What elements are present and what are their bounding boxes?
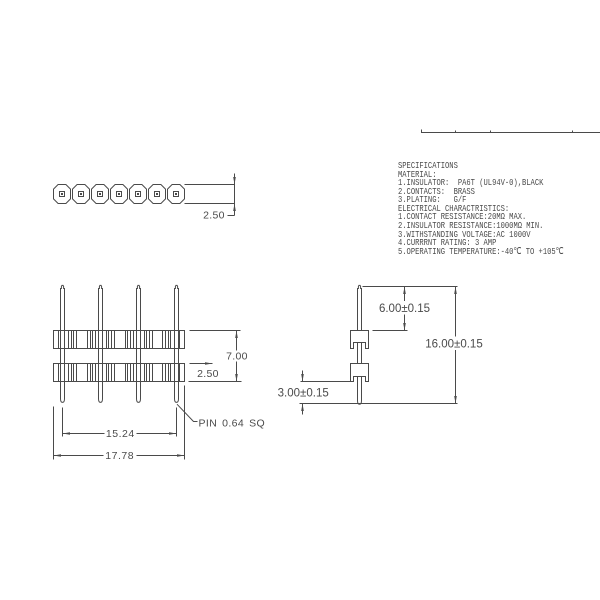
front view: insulator row 1 (upper) outline	[54, 331, 185, 349]
top view pin 6 square cross-section	[155, 192, 160, 197]
top view insulator block 1	[54, 185, 71, 204]
6.00 dimension line upper segment	[404, 287, 406, 302]
7.00 top arrowhead	[235, 331, 238, 339]
top view pin 3 square cross-section	[98, 192, 103, 197]
top view: leader tail to text	[228, 215, 235, 217]
front view: top pin with chamfered tip	[137, 285, 141, 330]
front view: pin segment between rows (right edge)	[102, 349, 104, 364]
front view: top pin with chamfered tip	[61, 285, 65, 330]
3.00 upper outside-arrow stem	[302, 371, 304, 382]
specifications text block	[398, 162, 564, 256]
top view: extension of bottom edge	[185, 203, 235, 205]
front view: row 2 (lower) chamfer and block-joint lines	[58, 364, 60, 382]
top view insulator block 5	[130, 185, 147, 204]
front view: insulator row 2 (lower) outline	[54, 364, 185, 382]
3.00 lower outside-arrow stem	[302, 404, 304, 415]
side view: pin middle segment right edge	[361, 343, 363, 364]
front view: pin segment between rows (left edge)	[98, 349, 100, 364]
front view: bottom pin with rounded tip	[99, 382, 103, 403]
front view: top pin with chamfered tip	[175, 285, 179, 330]
top view pin 7 square cross-section	[174, 192, 179, 197]
svg-text:6.00±0.15: 6.00±0.15	[379, 303, 430, 315]
16.00 dimension line lower segment	[455, 350, 457, 404]
top view insulator block 4	[111, 185, 128, 204]
17.78 dimension line left segment	[54, 455, 104, 457]
ext line from row1 top edge (7.00)	[190, 330, 241, 332]
side view: insulator row 1 profile with bottom recess	[351, 331, 369, 349]
ext line from pin top (6.00/16.00)	[363, 286, 458, 288]
side view: insulator row 2 profile with bottom recess	[351, 364, 369, 382]
16.00 dimension line upper segment	[455, 287, 457, 337]
15.24 dimension line left segment	[63, 433, 105, 435]
svg-text:2.50: 2.50	[203, 210, 225, 222]
6.00 top arrowhead	[403, 287, 406, 295]
15.24 left arrowhead	[63, 432, 71, 435]
17.78 right arrowhead	[177, 454, 185, 457]
17.78 dimension line right segment	[137, 455, 185, 457]
ext line from row1 top (6.00)	[373, 330, 408, 332]
6.00 dimension line lower segment	[404, 315, 406, 331]
svg-text:PIN 0.64 SQ: PIN 0.64 SQ	[199, 417, 266, 429]
front view: pin segment between rows (left edge)	[174, 349, 176, 364]
ext line from row2 bottom edge (shared)	[189, 381, 242, 383]
7.00 dimension line lower segment	[236, 362, 238, 382]
top view pin 1 square cross-section	[60, 192, 65, 197]
arrowhead on 2.50 ext line	[205, 362, 213, 365]
top view insulator block 2	[73, 185, 90, 204]
15.24 right arrowhead	[169, 432, 177, 435]
front view: pin segment between rows (left edge)	[60, 349, 62, 364]
16.00 top arrowhead	[454, 287, 457, 295]
7.00 bottom arrowhead	[235, 374, 238, 382]
top view: arrowhead at bottom edge	[233, 204, 236, 212]
top view pin 2 square cross-section	[79, 192, 84, 197]
svg-text:2.50: 2.50	[197, 368, 219, 380]
front view: top pin with chamfered tip	[99, 285, 103, 330]
top view insulator block 6	[149, 185, 166, 204]
front view: pin segment between rows (right edge)	[64, 349, 66, 364]
svg-text:7.00: 7.00	[226, 350, 248, 362]
top view: extension of top edge	[185, 184, 235, 186]
ext line at pin bottom (3.00/16.00)	[300, 403, 458, 405]
top view: arrowhead at top edge	[233, 177, 236, 185]
15.24 ext line from pin 1	[62, 408, 64, 437]
front view: row 1 (upper) chamfer and block-joint lines	[58, 331, 60, 349]
ext line from row2 top edge (2.50)	[190, 363, 213, 365]
svg-text:17.78: 17.78	[105, 450, 134, 462]
svg-text:15.24: 15.24	[106, 428, 135, 440]
top view pin 5 square cross-section	[136, 192, 141, 197]
side view: pin upper segment with chamfered tip	[358, 285, 362, 330]
7.00 dimension line upper segment	[236, 331, 238, 351]
top view insulator block 7	[168, 185, 185, 204]
top view insulator block 3	[92, 185, 109, 204]
side view: pin lower segment with rounded tip	[358, 377, 362, 405]
top view: 2.50 dimension line	[234, 174, 236, 216]
leader line from pin 4 tip	[177, 404, 198, 421]
svg-text:16.00±0.15: 16.00±0.15	[425, 338, 482, 350]
side view: pin middle segment left edge	[357, 343, 359, 364]
17.78 ext line from housing left edge	[53, 407, 55, 460]
title-block border fragment (clipped at right edge)	[421, 132, 600, 134]
6.00 bottom arrowhead	[403, 323, 406, 331]
3.00 lower arrowhead	[301, 404, 304, 412]
front view: bottom pin with rounded tip	[137, 382, 141, 403]
17.78 left arrowhead	[54, 454, 62, 457]
ext line from row2 bottom (3.00)	[301, 381, 351, 383]
16.00 bottom arrowhead	[454, 396, 457, 404]
front view: pin segment between rows (right edge)	[178, 349, 180, 364]
top view pin 4 square cross-section	[117, 192, 122, 197]
15.24 ext line from pin 4	[176, 408, 178, 437]
front view: bottom pin with rounded tip	[175, 382, 179, 403]
front view: pin segment between rows (right edge)	[140, 349, 142, 364]
17.78 ext line from housing right edge	[184, 386, 186, 460]
front view: bottom pin with rounded tip	[61, 382, 65, 403]
front view: pin segment between rows (left edge)	[136, 349, 138, 364]
15.24 dimension line right segment	[137, 433, 177, 435]
svg-text:3.00±0.15: 3.00±0.15	[278, 388, 329, 400]
3.00 upper arrowhead	[301, 374, 304, 382]
